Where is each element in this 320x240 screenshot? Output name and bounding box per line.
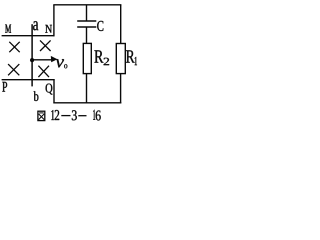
label R1 subscript 1 (135, 57, 137, 65)
rod ab (31, 24, 33, 86)
label v0 glyph v (56, 59, 64, 67)
flux symbol x1 (9, 42, 19, 52)
wire bottom horizontal (53, 102, 121, 104)
wire Q to bottom (53, 79, 55, 103)
capacitor C top plate (77, 20, 96, 22)
wire bottom rail PQ (2, 79, 55, 81)
wire capacitor to R2 (86, 27, 88, 44)
label R2 glyph R (94, 50, 103, 62)
label b (34, 91, 39, 101)
caption digit 3 (72, 110, 77, 120)
caption icon tu (figure) (38, 111, 45, 120)
wire N to top (53, 5, 55, 37)
flux symbol x3 (8, 64, 19, 75)
wire capacitor top stub (86, 5, 88, 21)
caption dash 1 (61, 115, 70, 117)
label N (45, 25, 52, 33)
label P (2, 82, 7, 92)
wire right drop to R1 (120, 5, 122, 44)
wire top horizontal (53, 4, 121, 6)
caption digit 1 (93, 110, 95, 120)
charge dot on rod (30, 58, 34, 62)
label R2 subscript 2 (104, 58, 110, 65)
resistor R2 box (83, 43, 91, 73)
caption digit 2 (55, 110, 60, 120)
label a (33, 21, 38, 30)
flux symbol x4 (38, 66, 49, 77)
label v0 subscript 0 (64, 64, 67, 68)
label C (97, 21, 103, 31)
caption dash 2 (78, 115, 86, 117)
resistor R1 box (116, 44, 125, 74)
label M (5, 25, 11, 33)
label Q (46, 84, 53, 95)
velocity arrow v0 (34, 56, 58, 62)
flux symbol x2 (40, 40, 51, 51)
capacitor C bottom plate (77, 26, 96, 28)
caption digit 1 (51, 110, 54, 120)
wire R2 to bottom (86, 74, 88, 103)
wire top rail MN (2, 35, 55, 37)
caption digit 6 (96, 111, 101, 121)
label R1 glyph R (126, 50, 135, 62)
wire R1 to bottom (120, 74, 122, 104)
